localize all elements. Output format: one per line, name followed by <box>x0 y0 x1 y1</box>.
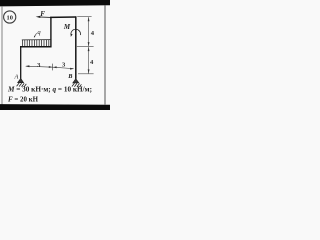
support A (pin with hatching) <box>17 78 27 87</box>
variant number circle 10 <box>4 11 16 23</box>
step-level extension line <box>77 46 94 48</box>
vertical dimension line 4 (upper) <box>88 17 90 46</box>
svg-text:F = 20 кН: F = 20 кН <box>8 95 39 103</box>
distributed load q comb on step beam <box>22 40 51 46</box>
svg-text:A: A <box>13 73 18 80</box>
frame lower-left column <box>20 46 22 78</box>
vertical dimension line 4 (lower) <box>88 47 90 74</box>
svg-text:10: 10 <box>7 14 13 21</box>
svg-text:B: B <box>67 73 72 80</box>
frame step beam (loaded) <box>20 46 52 48</box>
top border band <box>0 0 110 6</box>
horizontal dimension line (3 + 3) <box>25 64 74 71</box>
svg-text:M = 30 кН·м; q = 10 кН/м;: M = 30 кН·м; q = 10 кН/м; <box>7 85 92 93</box>
frame upper-left column <box>50 17 52 48</box>
support B (pin with hatching) <box>72 79 82 87</box>
force F arrow (pointing left, applied at top-left frame corner) <box>36 16 51 18</box>
left border line <box>1 6 3 105</box>
bottom border band <box>0 104 110 110</box>
beam-level extension line <box>77 15 91 17</box>
moment M arc arrowhead <box>71 34 73 37</box>
base-level extension line <box>78 73 94 75</box>
svg-text:M: M <box>63 23 71 31</box>
moment M arc on right column <box>71 29 81 35</box>
frame top beam <box>50 16 76 18</box>
frame right column <box>75 16 77 79</box>
load q leader arrow <box>34 33 37 38</box>
right border line <box>104 5 106 105</box>
